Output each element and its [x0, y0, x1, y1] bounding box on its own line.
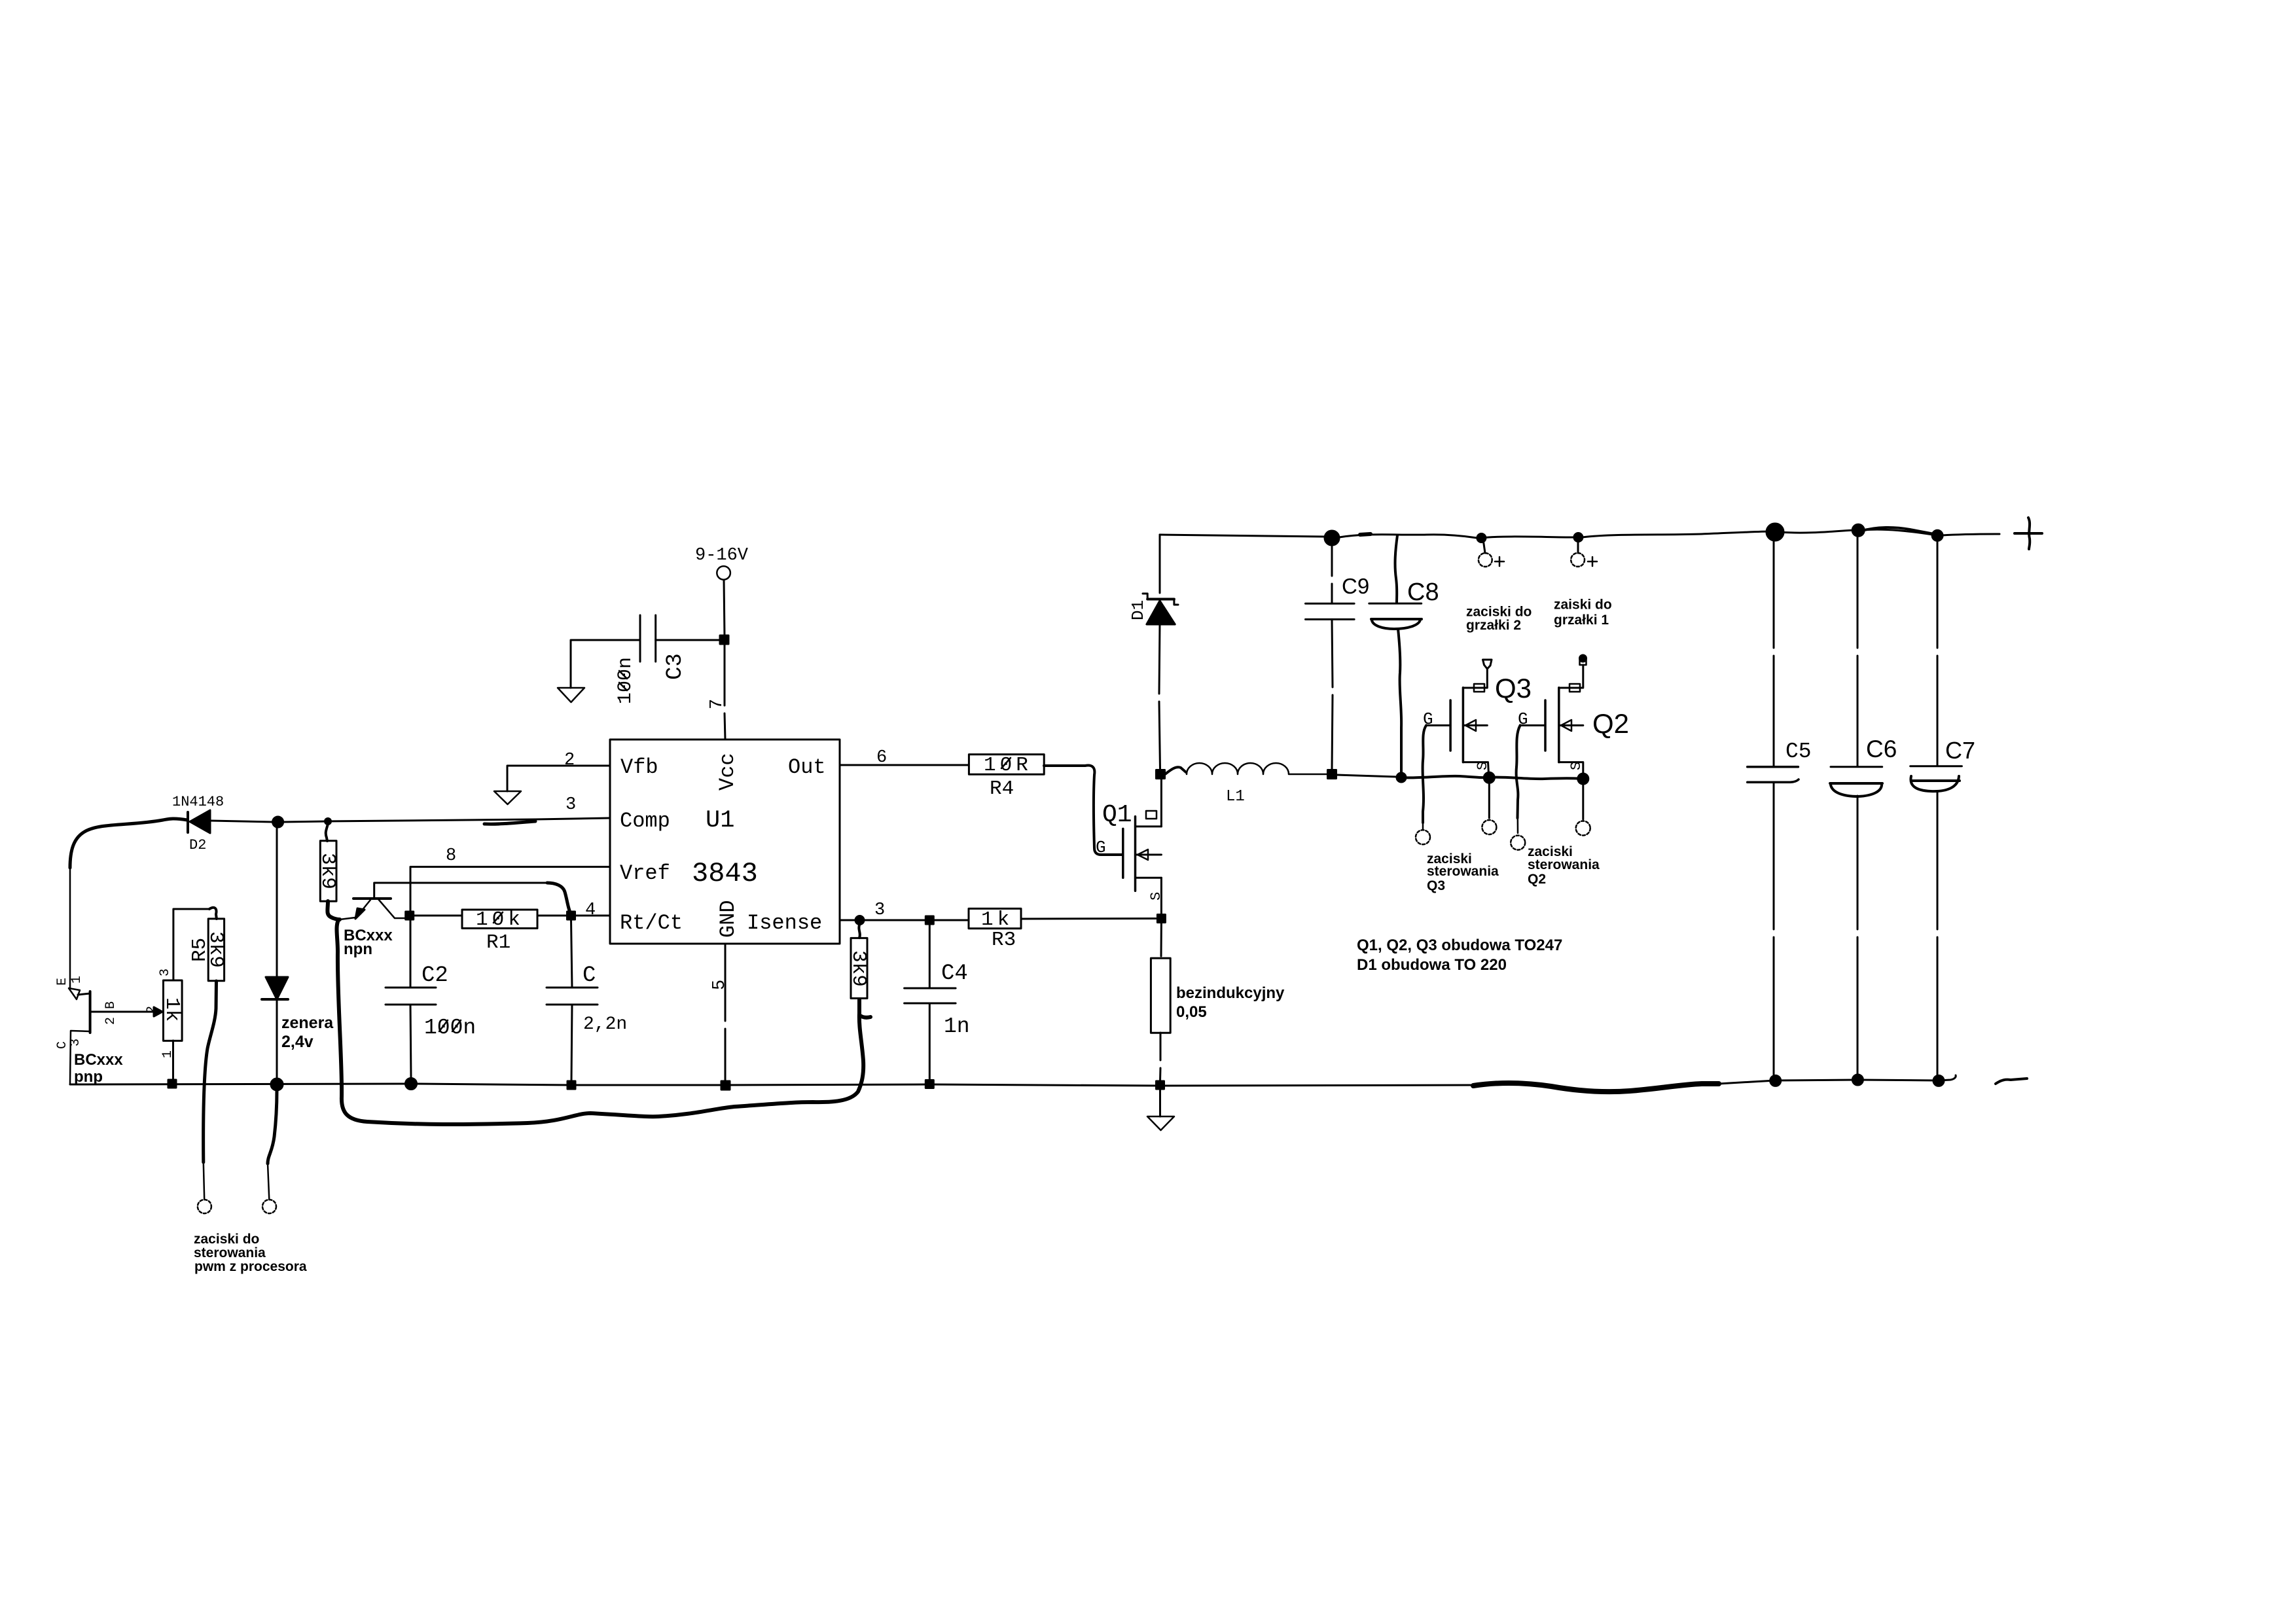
capacitor C6	[1857, 537, 1859, 766]
svg-text:S: S	[1475, 762, 1491, 770]
svg-text:S: S	[1148, 892, 1164, 901]
wire 3k9 to npn base	[327, 901, 340, 919]
resistor 3k9 comp divider	[320, 841, 336, 901]
svg-text:3: 3	[158, 969, 173, 976]
svg-text:Vcc: Vcc	[715, 753, 740, 791]
node C bottom rail	[567, 1081, 575, 1089]
wire switching node	[1336, 775, 1397, 777]
node C4 bottom rail	[925, 1080, 933, 1088]
node GND rail	[721, 1081, 730, 1090]
node R3/Q1 source	[1157, 915, 1165, 923]
wire bottom ground rail	[70, 1084, 1476, 1086]
wire rail to ground symbol	[1159, 1089, 1161, 1116]
node L1/C9 bottom	[1328, 770, 1336, 779]
node C5 top rail	[1767, 524, 1784, 541]
svg-text:Isense: Isense	[747, 911, 822, 935]
node Comp/D2/zener junction	[273, 817, 283, 827]
node grzalki2 rail tap	[1477, 534, 1486, 543]
svg-text:grzałki 1: grzałki 1	[1554, 613, 1609, 628]
svg-text:5: 5	[710, 980, 730, 990]
node Comp/3k9 tap	[325, 819, 331, 825]
wire top output rail	[1160, 535, 1325, 537]
svg-text:2: 2	[564, 751, 575, 770]
terminal Q2 source	[1576, 821, 1590, 836]
svg-text:10R: 10R	[984, 754, 1032, 777]
wire npn emitter long hand wire to 3k9	[336, 920, 863, 1124]
svg-text:G: G	[1096, 838, 1106, 857]
svg-text:Q1: Q1	[1102, 801, 1132, 829]
svg-text:bezindukcyjny: bezindukcyjny	[1176, 984, 1285, 1002]
capacitor C8	[1395, 535, 1397, 603]
wire pin8 Vref	[410, 867, 610, 912]
wire Q3 gate terminal	[1423, 725, 1427, 823]
terminal pwm 2	[262, 1200, 276, 1213]
svg-text:100n: 100n	[615, 657, 637, 704]
svg-text:B: B	[103, 1001, 118, 1009]
node Isense/3k9	[855, 916, 864, 925]
node pot bottom rail	[168, 1080, 176, 1088]
inductor L1	[1187, 763, 1327, 774]
wire R4 to Q1 gate	[1044, 766, 1122, 855]
svg-text:R3: R3	[992, 929, 1016, 952]
svg-text:3: 3	[68, 1039, 83, 1046]
svg-text:2,4v: 2,4v	[281, 1033, 314, 1051]
svg-text:zenera: zenera	[281, 1014, 334, 1032]
wire pin4 Rt/Ct	[575, 915, 610, 917]
zener diode 2,4v	[276, 827, 278, 977]
svg-text:C7: C7	[1945, 737, 1975, 764]
node C7 top rail	[1932, 530, 1943, 541]
svg-text:0,05: 0,05	[1176, 1003, 1207, 1021]
svg-text:grzałki 2: grzałki 2	[1466, 618, 1521, 633]
wire Q3 source terminal	[1488, 783, 1490, 818]
svg-text:7: 7	[708, 699, 727, 709]
svg-text:L1: L1	[1226, 788, 1245, 806]
resistor R5 3k9	[208, 919, 224, 981]
resistor shunt 0,05	[1151, 958, 1170, 1033]
svg-text:E: E	[55, 978, 70, 986]
svg-text:C4: C4	[941, 961, 968, 986]
svg-text:9-16V: 9-16V	[695, 546, 749, 565]
wire Q2 gate terminal	[1516, 725, 1520, 818]
svg-text:4: 4	[585, 901, 596, 920]
node C2 bottom rail	[406, 1079, 417, 1090]
capacitor C5	[1773, 541, 1775, 766]
svg-text:C5: C5	[1785, 740, 1812, 764]
node Q2 source/switching	[1578, 774, 1588, 784]
capacitor C2 100n	[410, 919, 412, 988]
svg-text:2: 2	[103, 1017, 118, 1025]
wire top rail hand dash	[1360, 534, 1371, 535]
svg-text:R4: R4	[990, 777, 1014, 800]
node C7 bottom rail	[1933, 1075, 1944, 1086]
svg-text:1n: 1n	[944, 1014, 970, 1039]
svg-text:C6: C6	[1866, 736, 1897, 762]
svg-text:3k9: 3k9	[847, 950, 870, 987]
svg-text:1: 1	[69, 976, 84, 984]
wire top rail hand overdraw	[1859, 527, 1938, 535]
capacitor C3	[640, 615, 656, 662]
transistor BCxxx npn	[353, 897, 391, 900]
node D1/L1/Q1 drain	[1157, 770, 1165, 779]
node Q3 source/switching	[1484, 772, 1494, 783]
capacitor C7	[1937, 541, 1939, 766]
svg-text:Q3: Q3	[1495, 673, 1532, 704]
node R1 left / C2	[406, 912, 414, 919]
svg-text:Q2: Q2	[1592, 708, 1629, 739]
node C6 top rail	[1852, 524, 1864, 536]
svg-text:2,2n: 2,2n	[583, 1014, 627, 1035]
svg-text:1N4148: 1N4148	[172, 794, 224, 810]
svg-text:BCxxx: BCxxx	[74, 1051, 123, 1069]
terminal 9-16V	[717, 566, 730, 580]
svg-text:npn: npn	[344, 940, 372, 958]
node C6 bottom rail	[1852, 1075, 1863, 1085]
op-amp U1 box UC3843	[610, 740, 840, 944]
ground main	[1147, 1116, 1174, 1130]
svg-text:S: S	[1568, 762, 1585, 770]
node C8/switching	[1397, 773, 1406, 782]
transistor Q3 MOSFET	[1449, 700, 1452, 751]
svg-text:sterowania: sterowania	[194, 1245, 266, 1260]
node junction C3/Vcc	[720, 635, 728, 644]
node C5 bottom rail	[1770, 1075, 1781, 1086]
svg-text:1k: 1k	[160, 997, 183, 1022]
resistor R1 10k	[462, 910, 537, 929]
node output plus mark	[2015, 532, 2042, 535]
wire Q1 source to shunt	[1160, 922, 1162, 956]
svg-text:GND: GND	[716, 900, 740, 938]
wire npn collector hand bend to pin4 node	[547, 883, 571, 916]
wire Vcc supply	[724, 580, 725, 636]
svg-text:2: 2	[145, 1006, 160, 1014]
wire node to L1 hand squiggle	[1165, 767, 1186, 774]
svg-text:D2: D2	[189, 837, 206, 853]
wire Comp hand overdraw	[484, 821, 535, 824]
wire pin5 GND to rail	[725, 944, 726, 1081]
node zener rail	[271, 1079, 283, 1090]
svg-text:10k: 10k	[476, 908, 524, 931]
svg-text:D1 obudowa TO 220: D1 obudowa TO 220	[1357, 956, 1507, 974]
wire pin3 Comp line	[283, 818, 610, 822]
svg-text:pnp: pnp	[74, 1068, 103, 1086]
svg-text:100n: 100n	[424, 1016, 476, 1040]
terminal Q2 gate	[1511, 836, 1525, 850]
svg-text:sterowania: sterowania	[1528, 857, 1600, 872]
node R1 right / pin4	[567, 912, 575, 919]
svg-text:3: 3	[874, 901, 885, 920]
wire R5 to pwm terminal	[204, 981, 217, 1162]
diode D2 1N4148	[187, 812, 189, 832]
ground Vfb	[494, 791, 521, 804]
svg-text:Rt/Ct: Rt/Ct	[620, 911, 683, 935]
svg-text:1k: 1k	[981, 908, 1013, 931]
svg-text:8: 8	[446, 846, 456, 866]
node C4 top	[925, 916, 933, 924]
svg-text:C3: C3	[663, 653, 688, 680]
svg-text:zaciski do: zaciski do	[194, 1232, 259, 1247]
wire D2 anode hand curve to pnp emitter	[70, 819, 187, 868]
svg-text:Q2: Q2	[1528, 872, 1546, 887]
terminal grzalki 1	[1571, 553, 1585, 567]
node shunt rail	[1157, 1081, 1164, 1089]
svg-text:R5: R5	[188, 938, 211, 962]
svg-text:U1: U1	[706, 807, 734, 834]
ground C3	[558, 688, 584, 702]
capacitor C9	[1331, 544, 1333, 603]
svg-text:Q1, Q2, Q3 obudowa TO247: Q1, Q2, Q3 obudowa TO247	[1357, 936, 1562, 954]
resistor R3 1k	[934, 919, 969, 921]
wire zener to pwm terminal	[268, 1090, 277, 1164]
diode D1	[1159, 535, 1161, 593]
svg-text:pwm z procesora: pwm z procesora	[194, 1259, 307, 1274]
resistor R4 10R	[840, 764, 969, 766]
svg-text:zaiski do: zaiski do	[1554, 597, 1612, 613]
terminal grzalki 2	[1479, 553, 1492, 567]
capacitor C4 1n	[929, 924, 931, 988]
svg-text:C: C	[583, 963, 596, 988]
capacitor C 2,2n	[571, 919, 573, 988]
svg-text:Out: Out	[788, 755, 826, 779]
resistor 3k9 Isense divider	[851, 938, 867, 998]
terminal pwm 1	[198, 1200, 211, 1213]
svg-text:3: 3	[565, 795, 576, 815]
svg-text:Vref: Vref	[620, 861, 670, 885]
wire pin3 Isense	[840, 919, 925, 921]
transistor Q2 MOSFET	[1544, 700, 1547, 751]
transistor Q1 MOSFET	[1122, 829, 1124, 878]
terminal Q3 gate	[1416, 830, 1430, 844]
node grzalki1 rail tap	[1574, 533, 1583, 542]
potentiometer 1k	[164, 980, 183, 1041]
svg-text:C9: C9	[1342, 574, 1369, 598]
svg-text:3843: 3843	[692, 858, 758, 889]
svg-text:Q3: Q3	[1427, 878, 1445, 893]
svg-text:3k9: 3k9	[316, 853, 339, 889]
terminal Q3 source	[1482, 820, 1496, 834]
svg-text:sterowania: sterowania	[1427, 864, 1499, 879]
svg-text:C8: C8	[1407, 579, 1439, 606]
svg-text:D1: D1	[1128, 600, 1148, 620]
svg-text:C2: C2	[422, 963, 448, 988]
node C9 top rail	[1325, 531, 1339, 545]
svg-text:R1: R1	[486, 931, 511, 954]
wire Q2 source terminal	[1582, 784, 1584, 819]
transistor Q? BCxxx pnp	[89, 991, 92, 1033]
wire bottom rail end dash	[1996, 1079, 2027, 1084]
svg-text:Vfb: Vfb	[620, 755, 658, 779]
svg-text:Comp: Comp	[620, 809, 670, 833]
wire pin2 Vfb to ground	[507, 766, 610, 791]
